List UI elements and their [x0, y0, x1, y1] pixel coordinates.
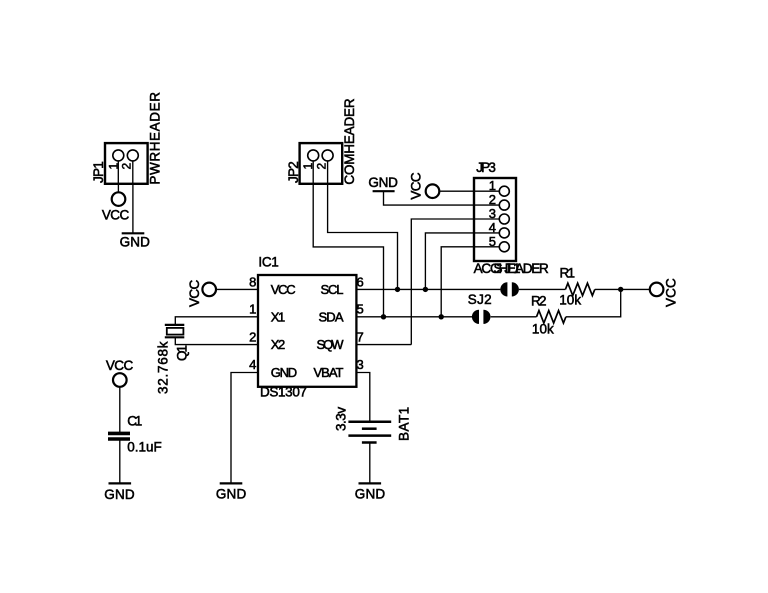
wire JP2 pin2 to SCL — [328, 155, 398, 289]
svg-text:DS1307: DS1307 — [260, 385, 307, 400]
solder jumper SJ2 — [472, 310, 491, 324]
svg-text:ACCHEADER: ACCHEADER — [474, 261, 549, 276]
pin number 1 of JP1 — [106, 163, 120, 170]
pin number 4 — [249, 357, 256, 372]
svg-text:6: 6 — [357, 274, 364, 289]
value 3.3v — [334, 407, 349, 431]
svg-text:3: 3 — [357, 357, 364, 372]
wire X2 to crystal — [175, 337, 258, 344]
svg-text:2: 2 — [489, 192, 496, 207]
label Q1 — [175, 345, 190, 361]
junction on SCL at JP3 pin4 — [423, 287, 428, 292]
svg-text:3.3v: 3.3v — [334, 407, 349, 431]
solder jumper SJ1 — [500, 282, 519, 296]
pin number 2 of JP2 — [314, 163, 328, 170]
svg-text:R2: R2 — [531, 294, 547, 309]
crystal Q1 — [165, 325, 185, 337]
wire R1 to VCC — [595, 288, 650, 290]
pin number 7 — [357, 329, 364, 344]
value 10k of R2 — [532, 322, 554, 337]
pin number 2 of JP1 — [120, 163, 134, 170]
svg-text:JP3: JP3 — [476, 160, 496, 175]
svg-text:JP1: JP1 — [91, 161, 106, 183]
pin name SDA — [319, 309, 344, 324]
label C1 — [127, 413, 142, 428]
ground GND at C1 — [104, 483, 135, 502]
pin number 1 of JP3 — [489, 178, 496, 193]
connector JP3 — [474, 178, 516, 261]
ground GND at BAT1 — [355, 483, 386, 501]
pin name X1 — [271, 309, 286, 324]
svg-text:JP2: JP2 — [286, 161, 301, 183]
svg-text:10k: 10k — [532, 322, 554, 337]
svg-text:0.1uF: 0.1uF — [127, 440, 161, 455]
value 0.1uF — [127, 440, 161, 455]
svg-text:IC1: IC1 — [258, 255, 278, 270]
ground GND at IC — [216, 483, 247, 501]
svg-text:VCC: VCC — [102, 207, 130, 222]
wire GND to JP3 pin2 — [384, 191, 500, 205]
svg-text:COMHEADER: COMHEADER — [342, 98, 357, 184]
label ACCHEADER — [474, 261, 549, 276]
wire VBAT to battery — [356, 373, 369, 422]
supply VCC at JP1 — [102, 192, 130, 222]
svg-text:2: 2 — [120, 163, 134, 170]
svg-text:X1: X1 — [271, 309, 286, 324]
pin number 2 of JP3 — [489, 192, 496, 207]
svg-text:VCC: VCC — [408, 172, 423, 200]
svg-text:GND: GND — [368, 175, 398, 190]
pin name VCC — [271, 282, 296, 297]
wire JP3 pin5 to SDA — [441, 247, 499, 317]
svg-text:SJ1: SJ1 — [494, 261, 521, 276]
label JP3 — [476, 160, 496, 175]
label R2 — [531, 294, 547, 309]
ground GND to JP3 pin2 — [368, 175, 398, 191]
label JP2 — [286, 161, 301, 183]
pin number 5 of JP3 — [489, 234, 496, 249]
label SJ2 — [468, 292, 492, 307]
wire JP2 pin1 to SDA — [313, 155, 383, 317]
svg-text:7: 7 — [357, 329, 364, 344]
svg-text:GND: GND — [104, 487, 135, 502]
svg-text:Q1: Q1 — [175, 345, 190, 361]
pin name VBAT — [314, 365, 344, 380]
svg-text:GND: GND — [120, 234, 151, 249]
pin number 2 — [249, 329, 256, 344]
svg-text:C1: C1 — [127, 413, 142, 428]
svg-text:32.768k: 32.768k — [156, 341, 171, 394]
connector JP1 — [105, 143, 148, 184]
svg-text:BAT1: BAT1 — [397, 407, 412, 441]
svg-text:2: 2 — [314, 163, 328, 170]
label BAT1 — [397, 407, 412, 441]
wire X1 to crystal — [175, 317, 258, 325]
IC U1 DS1307 box — [258, 275, 356, 387]
svg-text:VBAT: VBAT — [314, 365, 344, 380]
wire VCC to JP3 pin1 — [439, 190, 499, 192]
resistor R1 — [565, 283, 594, 295]
junction on SDA at JP2 pin1 — [381, 314, 386, 319]
svg-text:GND: GND — [216, 487, 247, 502]
svg-text:SDA: SDA — [319, 309, 344, 324]
resistor R2 — [537, 311, 566, 323]
capacitor C1 — [108, 387, 130, 484]
svg-text:2: 2 — [249, 329, 256, 344]
svg-text:SQW: SQW — [317, 337, 345, 352]
junction on SDA at JP3 pin5 — [439, 314, 444, 319]
wire VCC to IC pin8 — [216, 288, 258, 290]
wire JP3 pin4 to SCL — [425, 233, 499, 290]
svg-text:1: 1 — [106, 163, 120, 170]
connector JP2 — [300, 143, 343, 184]
svg-text:1: 1 — [301, 163, 315, 170]
pin name X2 — [271, 337, 286, 352]
pin number 3 of JP3 — [489, 206, 496, 221]
svg-text:4: 4 — [249, 357, 256, 372]
svg-text:8: 8 — [249, 274, 256, 289]
supply VCC right — [650, 278, 679, 307]
label JP1 — [91, 161, 106, 183]
supply VCC at JP3 pin1 — [408, 172, 439, 200]
pin number 3 — [357, 357, 364, 372]
supply VCC at IC pin8 — [187, 279, 216, 307]
battery BAT1 — [348, 422, 391, 484]
junction at R1 R2 VCC — [618, 287, 623, 292]
label SJ1 — [494, 261, 521, 276]
value 32.768k — [156, 341, 171, 394]
svg-text:5: 5 — [489, 234, 496, 249]
svg-text:VCC: VCC — [187, 279, 202, 307]
svg-text:GND: GND — [355, 487, 386, 502]
svg-text:4: 4 — [489, 220, 496, 235]
wire JP1 pin2 to GND — [132, 155, 134, 233]
pin number 1 of JP2 — [301, 163, 315, 170]
svg-text:R1: R1 — [560, 265, 576, 280]
wire JP1 pin1 to VCC — [117, 155, 119, 199]
pin name SCL — [321, 282, 344, 297]
wire IC GND pin to ground — [231, 373, 258, 484]
pin number 6 — [357, 274, 364, 289]
svg-text:3: 3 — [489, 206, 496, 221]
ground GND at JP1 — [120, 233, 151, 249]
junction on SCL at JP2 pin2 — [395, 287, 400, 292]
svg-text:VCC: VCC — [106, 358, 134, 373]
wire JP3 pin3 to SQW — [411, 219, 499, 345]
svg-text:5: 5 — [357, 302, 364, 317]
label R1 — [560, 265, 576, 280]
label COMHEADER — [342, 98, 357, 184]
svg-text:1: 1 — [489, 178, 496, 193]
svg-text:10k: 10k — [559, 293, 581, 308]
wire SDA net — [356, 289, 620, 316]
wire SCL net — [356, 288, 565, 290]
svg-text:SJ2: SJ2 — [468, 292, 492, 307]
svg-text:VCC: VCC — [664, 278, 679, 307]
svg-text:VCC: VCC — [271, 282, 296, 297]
wire SQW net — [356, 344, 411, 346]
pin number 8 — [249, 274, 256, 289]
pin number 4 of JP3 — [489, 220, 496, 235]
pin number 5 — [357, 302, 364, 317]
value 10k of R1 — [559, 293, 581, 308]
pin name SQW — [317, 337, 345, 352]
svg-text:GND: GND — [271, 365, 298, 380]
pin number 1 — [249, 302, 256, 317]
svg-text:PWRHEADER: PWRHEADER — [147, 92, 162, 185]
label IC1 — [258, 255, 278, 270]
label PWRHEADER — [147, 92, 162, 185]
svg-text:1: 1 — [249, 302, 256, 317]
pin name GND — [271, 365, 298, 380]
label DS1307 — [260, 385, 307, 400]
svg-text:X2: X2 — [271, 337, 286, 352]
supply VCC at C1 — [106, 358, 134, 387]
svg-text:SCL: SCL — [321, 282, 344, 297]
